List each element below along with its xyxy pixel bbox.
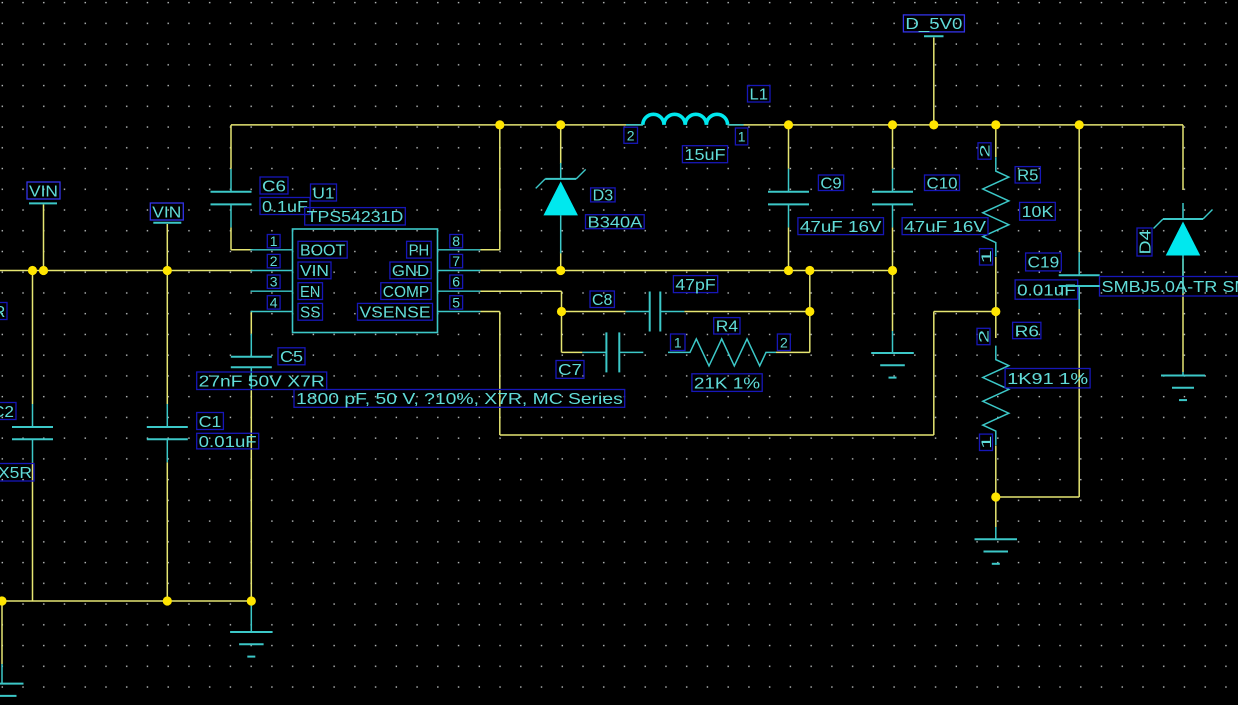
capacitor C10 symbol — [872, 169, 913, 228]
ground symbol at C10 branch — [871, 331, 914, 378]
wire feedback riser — [934, 312, 996, 436]
svg-text:C2: C2 — [0, 404, 14, 421]
svg-text:C9: C9 — [820, 176, 841, 193]
svg-text:TPS54231D: TPS54231D — [307, 209, 404, 226]
svg-text:VIN: VIN — [152, 204, 181, 221]
wire VSENSE pin stub to feedback drop — [481, 312, 500, 436]
ref label R fragment at left edge — [0, 303, 7, 321]
value label 15uF (L1) — [682, 146, 727, 164]
svg-text:1: 1 — [978, 250, 994, 264]
svg-text:R4: R4 — [716, 319, 738, 336]
svg-text:C5: C5 — [280, 349, 303, 366]
pin number 2 (L1 left) — [624, 127, 638, 143]
part label SMBJ5.0A-TR SM (clipped at right edge) — [1100, 277, 1238, 297]
svg-text:U1: U1 — [313, 185, 335, 202]
ref label C8 — [590, 291, 614, 309]
value label 47pF — [673, 276, 717, 294]
ref label C19 — [1026, 253, 1062, 272]
svg-text:2: 2 — [270, 253, 278, 269]
IC U1 pin stubs — [251, 250, 481, 312]
svg-text:R: R — [0, 304, 5, 321]
svg-text:C8: C8 — [592, 292, 613, 309]
pin name VIN — [298, 262, 331, 280]
diode D4 schottky symbol — [1154, 203, 1213, 294]
wire C7 branch left — [562, 351, 583, 353]
capacitor C5 symbol — [231, 334, 272, 390]
inductor L1 symbol — [626, 114, 744, 125]
svg-text:D4: D4 — [1137, 229, 1154, 254]
pin number 1 (R6 bottom, rotated) — [978, 434, 994, 450]
net label D_5V0 — [903, 15, 964, 33]
svg-text:R5: R5 — [1017, 168, 1038, 185]
pin name COMP — [381, 283, 431, 301]
value label TPS54231D — [305, 208, 406, 227]
capacitor C1 symbol — [147, 404, 188, 462]
svg-text:VIN: VIN — [300, 263, 329, 280]
wire bottom ground bus — [0, 600, 251, 602]
capacitor C7 symbol — [582, 332, 643, 372]
svg-text:D_5V0: D_5V0 — [905, 16, 962, 33]
svg-text:EN: EN — [300, 284, 321, 301]
wire BOOT riser upper (C6 top lead) — [230, 125, 232, 169]
pin number 2 (R5 top, rotated) — [977, 143, 993, 159]
svg-text:C10: C10 — [927, 176, 958, 193]
wire C19 riser lower — [996, 309, 1079, 497]
wire C19 riser upper — [1078, 125, 1080, 252]
wire SS pin to C5 — [251, 312, 252, 334]
wire D3 top lead — [560, 125, 562, 164]
wire VIN power symbol 1 drop — [43, 205, 45, 271]
capacitor C19 symbol — [1059, 252, 1100, 309]
svg-text:GND: GND — [392, 263, 429, 280]
value label 0.01uF (C1) — [197, 433, 259, 451]
wire top bus PH node segment — [231, 124, 643, 126]
pin number 5 (VSENSE) — [450, 294, 463, 310]
diode D3 schottky symbol — [536, 163, 586, 254]
value label 0.1uF — [260, 198, 310, 216]
value label X5R (clipped) — [0, 464, 34, 483]
svg-text:1K91 1%: 1K91 1% — [1007, 371, 1088, 388]
svg-text:VIN: VIN — [29, 183, 58, 200]
property label 1800 pF, 50 V, ?10%, X7R, MC Series — [294, 390, 625, 409]
ground symbol at bottom bus — [230, 605, 273, 657]
junction dot R6 bottom — [991, 492, 1000, 501]
resistor R6 symbol — [983, 346, 1009, 446]
pin name PH — [407, 241, 432, 259]
svg-text:0.01uF: 0.01uF — [1017, 282, 1076, 299]
svg-text:1: 1 — [270, 233, 278, 249]
pin number 8 (PH) — [450, 233, 463, 249]
pin name VSENSE — [358, 303, 433, 321]
pin name GND — [390, 262, 431, 280]
pin number 2 (R4 right) — [777, 334, 790, 351]
resistor R4 symbol — [668, 339, 776, 366]
svg-text:5: 5 — [452, 294, 460, 310]
wire GND pin bus — [481, 270, 893, 272]
wire BOOT riser lower + BOOT pin feed — [231, 227, 253, 249]
wire D_5V0 power drop — [933, 38, 935, 125]
wire R5 top lead — [995, 125, 997, 157]
value label 0.01uF (C19) — [1015, 280, 1078, 299]
value label 27nF 50V X7R — [197, 372, 327, 391]
svg-text:L1: L1 — [750, 87, 769, 104]
svg-text:6: 6 — [452, 274, 460, 290]
ref label C1 — [197, 413, 224, 431]
svg-text:1: 1 — [978, 435, 994, 449]
svg-text:D3: D3 — [593, 188, 614, 205]
value label B340A — [586, 215, 645, 232]
svg-text:C6: C6 — [262, 178, 286, 195]
svg-text:C19: C19 — [1028, 255, 1060, 272]
value label 1K91 1% — [1005, 369, 1090, 389]
pin number 1 (L1 right) — [735, 128, 747, 145]
svg-text:VSENSE: VSENSE — [360, 305, 431, 322]
svg-text:BOOT: BOOT — [300, 243, 345, 260]
svg-text:PH: PH — [409, 243, 430, 260]
svg-text:1: 1 — [738, 129, 746, 145]
svg-text:3: 3 — [270, 274, 278, 290]
junction dots on top bus — [495, 120, 1084, 129]
ref label R5 — [1015, 167, 1040, 185]
wire C10 riser — [892, 125, 894, 271]
svg-text:0.01uF: 0.01uF — [199, 434, 257, 451]
svg-text:27nF 50V X7R: 27nF 50V X7R — [199, 374, 325, 391]
value label 21K 1% — [692, 374, 762, 393]
power symbol VIN 1 bar — [29, 202, 57, 204]
pin number 1 (BOOT) — [267, 233, 280, 249]
svg-text:21K 1%: 21K 1% — [694, 375, 760, 392]
capacitor C6 symbol — [211, 169, 252, 228]
capacitor C8 symbol — [626, 292, 685, 332]
wire C1 branch — [166, 271, 168, 602]
svg-text:10K: 10K — [1022, 204, 1054, 221]
svg-text:2: 2 — [977, 144, 993, 158]
ref label C2 (clipped at edge) — [0, 403, 16, 421]
svg-text:SS: SS — [300, 305, 321, 322]
ref label U1 — [311, 184, 337, 202]
value label 10K — [1020, 202, 1056, 221]
net label VIN (left) — [27, 182, 60, 200]
svg-text:4: 4 — [270, 294, 278, 310]
ground symbol below R6 — [975, 527, 1018, 564]
wire D4 drop from bus — [1182, 125, 1184, 190]
ground symbol at left edge (clipped) — [0, 664, 24, 705]
wire C2 branch — [32, 271, 34, 602]
wire C5 bottom to ground bus — [250, 390, 252, 601]
wire C9 riser — [788, 125, 790, 271]
ref label L1 — [748, 86, 771, 104]
wire left-edge ground drop — [1, 601, 3, 664]
wire R4 to comp corner riser — [776, 271, 810, 353]
wire PH pin riser — [481, 125, 500, 250]
junction dots on VIN/GND row — [28, 266, 897, 275]
pin number 6 (COMP) — [450, 274, 463, 290]
pin number 2 (R6 top, rotated) — [976, 328, 992, 344]
svg-text:R6: R6 — [1015, 323, 1039, 340]
svg-text:2: 2 — [780, 334, 788, 350]
ref label C9 — [818, 175, 843, 193]
pin number 2 (VIN) — [267, 253, 280, 269]
wire feedback bottom run — [500, 434, 934, 436]
wire COMP pin to comp node — [481, 291, 562, 352]
capacitor C19 bottom plate overlay (drawn over value text) — [1059, 285, 1100, 287]
wire R6 bottom lead — [995, 446, 997, 498]
svg-text:15uF: 15uF — [684, 147, 725, 164]
pin name BOOT — [298, 241, 347, 259]
svg-text:SMBJ5.0A-TR SM: SMBJ5.0A-TR SM — [1102, 279, 1238, 296]
pin name SS — [298, 303, 323, 321]
svg-text:1800 pF, 50 V, ?10%, X7R, MC S: 1800 pF, 50 V, ?10%, X7R, MC Series — [296, 391, 623, 408]
power symbol VIN 2 bar — [153, 222, 181, 224]
wire D4 anode to ground — [1182, 259, 1184, 372]
resistor R5 symbol — [983, 157, 1009, 257]
pin number 3 (EN) — [267, 274, 280, 290]
ref label R4 — [714, 318, 740, 336]
wire R5 bottom / R6 top leads — [995, 257, 997, 338]
ref label D3 — [591, 188, 616, 205]
wire R6 bottom to ground lead — [995, 497, 997, 527]
ref label D4 (rotated) — [1137, 228, 1154, 256]
value label 47uF 16V (C10) — [902, 218, 988, 236]
value label 47uF 16V (C9) — [798, 218, 884, 236]
wire C10 ground drop — [892, 271, 894, 332]
svg-text:2: 2 — [627, 127, 635, 143]
svg-text:47uF 16V: 47uF 16V — [904, 219, 986, 236]
ref label C7 — [556, 361, 584, 380]
junction dots on bottom bus — [0, 596, 256, 605]
wire C8 branch right — [684, 311, 810, 313]
pin name EN — [298, 283, 323, 301]
wire C8 branch left — [562, 311, 626, 313]
svg-text:7: 7 — [452, 253, 460, 269]
net label VIN (second) — [150, 203, 183, 221]
ref label C5 — [278, 348, 305, 366]
svg-text:X5R: X5R — [0, 465, 32, 482]
ref label C6 — [260, 177, 288, 195]
svg-text:47uF 16V: 47uF 16V — [800, 219, 882, 236]
wire VIN power symbol 2 drop — [166, 224, 168, 271]
svg-text:0.1uF: 0.1uF — [262, 199, 308, 216]
pin number 1 (R5 bottom, rotated) — [978, 249, 994, 265]
svg-text:C7: C7 — [558, 362, 582, 379]
svg-text:47pF: 47pF — [675, 277, 716, 294]
wire VIN input bus — [0, 270, 253, 272]
ref label C10 — [925, 175, 960, 193]
svg-text:1: 1 — [674, 334, 682, 350]
ground symbol below D4 — [1161, 372, 1205, 400]
capacitor C2 symbol — [12, 404, 53, 462]
wire top bus output net segment — [728, 124, 1183, 126]
power symbol D_5V0 bar — [924, 35, 944, 37]
svg-text:B340A: B340A — [588, 215, 643, 232]
wire D3 bottom lead — [560, 252, 562, 271]
svg-text:2: 2 — [976, 329, 992, 343]
capacitor C9 symbol — [768, 169, 809, 228]
ref label R6 — [1013, 322, 1041, 340]
IC U1 body TPS54231D — [293, 229, 438, 333]
pin number 7 (GND) — [450, 253, 463, 269]
pin number 4 (SS) — [267, 294, 280, 310]
svg-text:COMP: COMP — [383, 284, 429, 301]
svg-text:8: 8 — [452, 233, 460, 249]
junction dots on comp/feedback row — [557, 307, 1001, 316]
svg-text:C1: C1 — [199, 414, 222, 431]
pin number 1 (R4 left) — [671, 334, 686, 351]
